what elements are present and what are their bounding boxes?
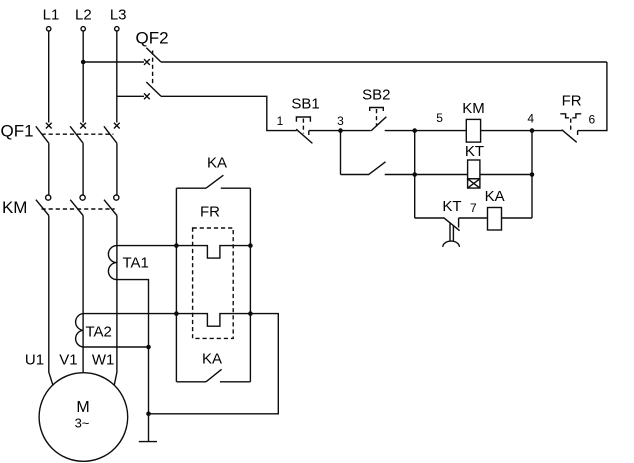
wire L3 to QF2 pole 2 [117, 95, 144, 97]
wire right rail of FR heater circuit [249, 188, 251, 382]
svg-text:W1: W1 [92, 352, 115, 369]
junction dot node 4 [530, 128, 535, 133]
wire TA1 bottom down [117, 280, 149, 347]
svg-text:L3: L3 [110, 6, 127, 23]
contactor KM pole 1 fixed contact [46, 195, 51, 200]
svg-text:KA: KA [485, 188, 505, 205]
relay contact KA top [176, 175, 250, 188]
wire QF2 pole2 to node 1 [161, 96, 297, 130]
svg-text:4: 4 [527, 112, 534, 126]
thermal contact FR stem [570, 119, 572, 133]
wire V1 phase to motor [82, 216, 84, 373]
wire node 3 down [340, 131, 342, 175]
svg-text:KT: KT [465, 143, 484, 160]
junction dot node 3 [338, 128, 343, 133]
svg-text:FR: FR [562, 93, 582, 110]
breaker QF1 pole 2 bar [70, 126, 83, 143]
pushbutton SB1 actuator [296, 117, 310, 122]
breaker QF1 pole 1 cross [46, 123, 52, 129]
terminal L1 [47, 27, 51, 31]
wire L2 down to QF1 [82, 31, 84, 122]
wire KA coil to right riser [502, 217, 533, 219]
breaker QF2 pole 1 cross [144, 59, 150, 65]
svg-text:6: 6 [589, 113, 596, 127]
pushbutton SB2 stem [376, 109, 378, 126]
wire QF1 pole2 to KM [82, 143, 84, 195]
junction dot heater1 right [248, 243, 253, 248]
pushbutton SB2 actuator [370, 108, 384, 112]
motor M1 [39, 373, 128, 462]
svg-text:FR: FR [200, 203, 220, 220]
svg-text:SB1: SB1 [291, 96, 319, 113]
terminal L3 [115, 27, 119, 31]
coil KT delay element [468, 179, 480, 188]
svg-text:5: 5 [436, 111, 443, 125]
wire L3 down to QF1 [116, 31, 118, 122]
thermal relay FR box [193, 228, 234, 338]
junction dot heater2 left [174, 311, 179, 316]
coil KA [488, 208, 502, 231]
svg-text:QF1: QF1 [0, 122, 33, 141]
contactor KM pole 3 fixed contact [114, 195, 119, 200]
wire L1 down to QF1 [48, 31, 50, 122]
thermal relay FR heater 1 [176, 246, 250, 259]
wire left rail of FR heater circuit [175, 188, 177, 382]
svg-text:1: 1 [277, 114, 284, 128]
breaker QF1 pole 3 cross [114, 123, 120, 129]
svg-text:L2: L2 [75, 6, 92, 23]
wire KT contact to KA coil [459, 217, 488, 219]
svg-text:QF2: QF2 [135, 29, 168, 48]
svg-text:KT: KT [442, 198, 461, 215]
svg-text:TA2: TA2 [85, 324, 111, 341]
contact KT delay symbol [443, 223, 460, 247]
thermal contact FR actuator [560, 114, 581, 118]
junction dot row2 left [412, 172, 417, 177]
contactor KM pole 2 fixed contact [80, 195, 85, 200]
svg-text:TA1: TA1 [122, 255, 148, 272]
wire U1 phase to motor [49, 216, 53, 386]
breaker QF1 linkage [42, 133, 114, 135]
contact KT delayed bar [444, 218, 460, 231]
svg-text:KM: KM [2, 198, 28, 217]
ground [139, 441, 157, 443]
junction dot heater1 left [174, 243, 179, 248]
wire row3 left [415, 217, 444, 219]
junction dot row2 right [530, 172, 535, 177]
coil KT body [468, 160, 480, 179]
breaker QF1 pole 2 cross [80, 123, 86, 129]
breaker QF2 pole 2 bar [146, 82, 161, 96]
svg-text:U1: U1 [25, 352, 44, 369]
junction dot TA secondary [146, 345, 151, 350]
relay contact KA bottom [176, 369, 250, 382]
svg-text:3: 3 [337, 114, 344, 128]
wire TA2 bottom [83, 346, 148, 348]
breaker QF2 linkage [152, 51, 154, 85]
junction dot L2 tap [81, 60, 86, 65]
current transformer TA1 [108, 246, 117, 280]
thermal relay FR heater 2 [83, 314, 250, 327]
svg-text:3~: 3~ [75, 416, 90, 431]
wire to ground [148, 347, 150, 441]
wire W1 phase to motor [114, 216, 117, 386]
contactor KM linkage [42, 208, 115, 210]
pushbutton SB1 contact [296, 129, 312, 143]
svg-text:7: 7 [470, 201, 477, 215]
contactor KM pole 1 bar [36, 200, 49, 216]
breaker QF2 pole 1 bar [146, 48, 161, 62]
wire SB1 to SB2 [309, 130, 371, 132]
wire QF2 pole1 output top rail [161, 61, 607, 63]
current transformer TA2 [76, 314, 83, 347]
breaker QF2 pole 2 cross [144, 93, 150, 99]
breaker QF1 pole 1 bar [36, 126, 49, 143]
thermal contact FR bar [562, 130, 578, 143]
terminal L2 [81, 27, 85, 31]
contact KM aux self-hold [341, 162, 386, 175]
svg-text:SB2: SB2 [362, 87, 390, 104]
junction dot node 5 branch [412, 128, 417, 133]
wire QF1 pole1 to KM [48, 143, 50, 195]
breaker QF1 pole 3 bar [104, 126, 117, 143]
wire SB2 to KM coil [385, 130, 467, 132]
svg-text:KA: KA [207, 154, 227, 171]
wire KT coil to node 4 riser [480, 174, 532, 176]
junction dot ground branch [146, 412, 151, 417]
wire right riser node4 down [531, 131, 533, 218]
pushbutton SB1 stem [302, 119, 304, 134]
svg-text:L1: L1 [43, 6, 60, 23]
wire L2 to QF2 pole 1 [83, 61, 144, 63]
wire right riser node 6 to top rail [578, 62, 607, 131]
contactor KM pole 2 bar [70, 200, 83, 216]
wire TA1 top to left rail [117, 245, 176, 247]
wire KM coil to FR contact [481, 130, 562, 132]
svg-text:KA: KA [202, 350, 222, 367]
coil KM [466, 119, 480, 142]
junction dot heater2 right [248, 311, 253, 316]
contactor KM pole 3 bar [104, 200, 117, 216]
wire outer loop bottom [149, 314, 279, 414]
svg-text:V1: V1 [59, 352, 77, 369]
pushbutton SB2 contact bar [371, 117, 386, 131]
wire QF1 pole3 to KM [116, 143, 118, 195]
svg-text:KM: KM [462, 100, 485, 117]
wire branch riser left [414, 131, 416, 218]
svg-text:M: M [76, 399, 89, 416]
wire KM aux to KT coil [385, 174, 468, 176]
